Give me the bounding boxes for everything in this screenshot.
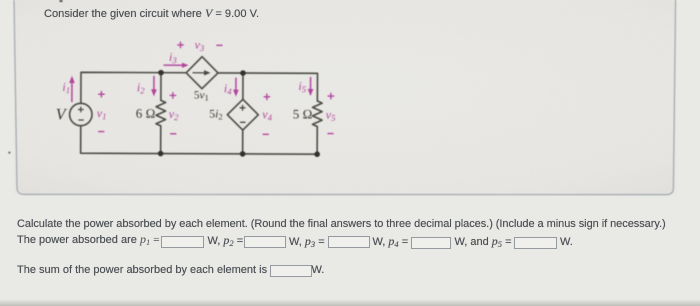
svg-text:6 Ω: 6 Ω — [136, 106, 156, 121]
current arrow i2 downward — [153, 76, 155, 91]
minus sign inside source 5i2 — [240, 121, 245, 123]
resistor 6 ohm — [156, 100, 166, 126]
plus sign inside voltage source V — [78, 107, 84, 113]
plus v3 — [177, 42, 184, 49]
node junction bottom of 6 ohm branch — [158, 151, 164, 157]
node junction top of 6 ohm branch — [158, 70, 164, 76]
minus v2 — [170, 133, 176, 135]
node junction bottom of 5 ohm branch — [314, 151, 320, 157]
current arrow i3 rightward — [164, 64, 183, 66]
minus v3 — [216, 44, 222, 46]
plus v4 — [264, 93, 271, 100]
node junction bottom of 5i2 branch — [240, 151, 246, 157]
faint photo texture — [0, 0, 1, 1]
bottom shadow — [0, 299, 700, 306]
title — [44, 7, 259, 20]
svg-text:5 Ω: 5 Ω — [293, 106, 313, 121]
dependent current source 5v1 diamond — [186, 57, 218, 89]
bottom text — [17, 218, 666, 230]
card border — [14, 0, 676, 195]
top speck — [60, 0, 63, 2]
plus sign inside source 5i2 — [240, 105, 246, 111]
minus v5 — [327, 133, 333, 135]
wire 6ohm branch lower — [160, 126, 162, 154]
arrow inside current source 5v1 — [192, 72, 204, 74]
wire top-right segment — [218, 73, 318, 101]
dependent voltage source 5i2 diamond — [227, 99, 258, 130]
current arrow i5 downward — [310, 77, 312, 90]
plus v1 — [98, 91, 105, 98]
wire mid branch lower — [242, 130, 244, 154]
node junction top of 5i2 branch — [240, 70, 246, 76]
component value labels (dark) — [56, 89, 313, 125]
current arrow i1 upward — [71, 81, 73, 102]
minus sign inside voltage source V — [78, 119, 83, 121]
current arrow i4 downward — [235, 78, 237, 91]
wire top-left segment — [81, 72, 186, 104]
minus v4 — [263, 133, 269, 135]
resistor 5 ohm — [312, 101, 322, 127]
minus v1 — [98, 131, 104, 133]
plus v5 — [328, 93, 335, 100]
wire mid branch upper — [242, 73, 244, 99]
dust speck — [8, 152, 10, 154]
wire bottom — [81, 125, 318, 154]
plus v2 — [170, 92, 177, 99]
wire 6ohm branch upper — [160, 73, 162, 101]
voltage source V — [70, 103, 92, 125]
magenta plus/minus signs — [98, 41, 335, 134]
